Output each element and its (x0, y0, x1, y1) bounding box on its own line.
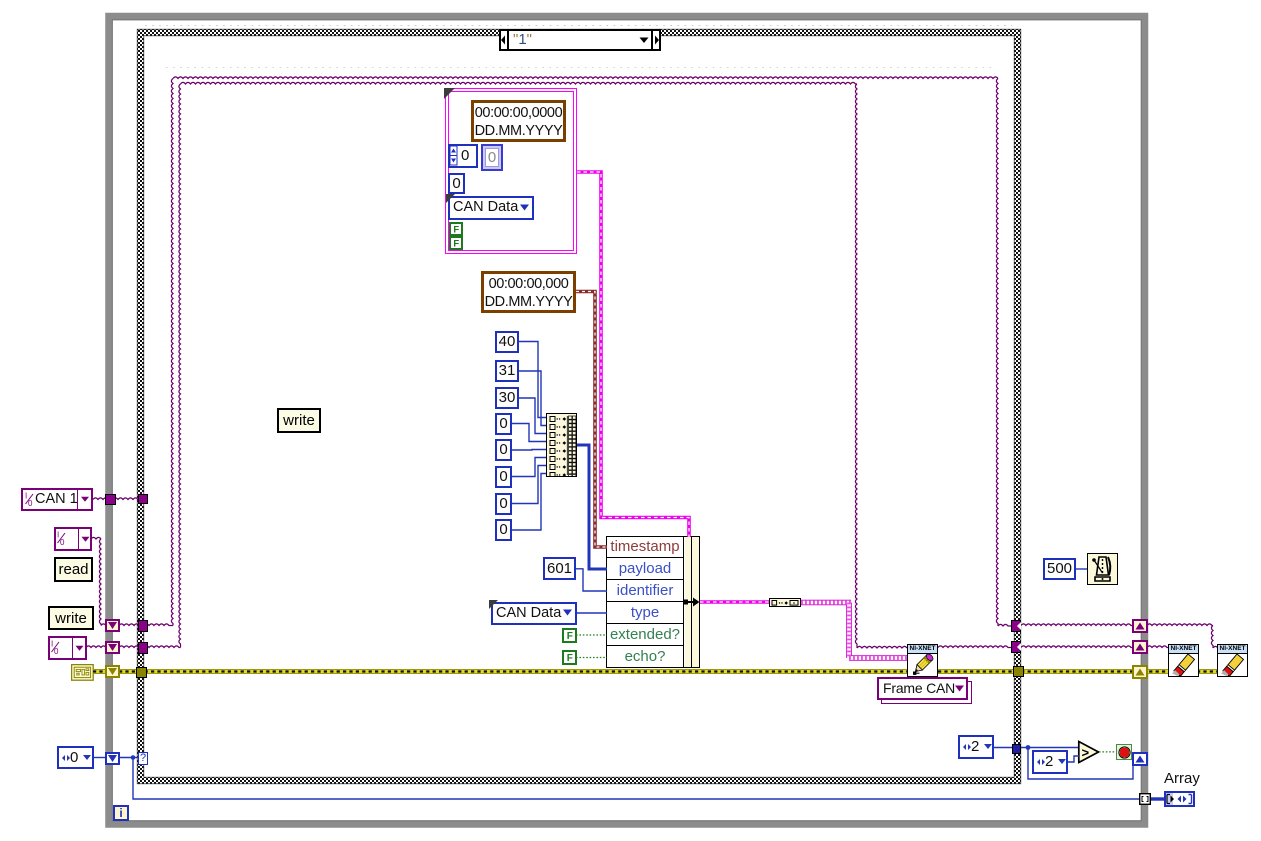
shift register left (read session) (105, 619, 120, 632)
wire 500 to wait ms (1076, 568, 1087, 570)
error cluster constant (71, 664, 94, 681)
shift register right (session A) (1132, 619, 1148, 633)
numeric constant 0 (495, 466, 512, 488)
wire timestamp constant to bundle (dark red) (576, 292, 607, 548)
numeric constant 601 (543, 557, 576, 580)
wire session CAN1 to case tunnel (93, 498, 139, 500)
while loop border (109, 17, 1145, 825)
tunnel error on case border (right) (1013, 666, 1024, 677)
wire session B: write session around top through NI-XNET write (86, 82, 1168, 648)
wire cluster constant to bundle input (magenta dashed) (577, 172, 689, 537)
timestamp constant 1 (471, 100, 566, 142)
tunnel session A on case border (right) (1011, 620, 1021, 632)
wire ring 0 to case selector and indexing tunnel (94, 755, 1140, 799)
svg-text:F: F (453, 239, 459, 250)
I/O name constant (empty, write session) (48, 636, 87, 660)
numeric constant 30 (495, 387, 519, 409)
case structure border (137, 29, 1021, 784)
case selector label "1" (499, 29, 661, 51)
ring constant CAN Data 2 (491, 602, 577, 625)
iteration terminal i (113, 805, 129, 821)
numeric constant 0 (495, 493, 512, 515)
ring constant 0 (case select) (57, 746, 94, 769)
svg-text:I: I (25, 492, 27, 501)
wire array out to Array indicator (1148, 797, 1164, 800)
build array node (8 inputs) (546, 413, 577, 477)
wire 601 to identifier (576, 569, 607, 591)
wire greater? to stop terminal (boolean) (1099, 751, 1116, 753)
faint selection marquee lines (145, 26, 1012, 68)
greater? comparison node (1077, 740, 1102, 765)
ring constant CAN Data (cluster) (448, 196, 534, 220)
tunnel count on case border (right) (1012, 744, 1021, 754)
wire session A: left SR around top to right tunnel (119, 77, 1218, 648)
I/O name constant (empty, read session) (54, 527, 92, 551)
cluster constant frame (445, 88, 577, 254)
numeric constant 0 (495, 519, 512, 541)
wire array of clusters (striped magenta) to XNET write (801, 603, 907, 659)
shift register left (error) (105, 665, 120, 678)
NI-XNET Close node 1 (1168, 644, 1199, 677)
tunnel CAN1 on while border (105, 494, 116, 505)
tunnel error on case border (136, 667, 147, 678)
wires boolean F to bundle (576, 635, 607, 658)
wire error cluster (93, 669, 1218, 674)
free label read (54, 557, 93, 582)
svg-text:I: I (51, 640, 53, 649)
shift register left (count, blue) (105, 752, 120, 765)
Array indicator terminal (1164, 791, 1195, 807)
wire bundle output cluster (magenta dashed) (700, 600, 770, 604)
wire array: build array to bundle payload (577, 445, 607, 569)
case selector terminal ? (138, 752, 148, 765)
ring constant 2 (inside case) (958, 735, 994, 759)
timestamp constant 2 (481, 271, 576, 313)
tunnel session B on case border (right) (1011, 641, 1021, 653)
shift register left (write session) (105, 641, 120, 654)
wires stop condition circuit (993, 745, 1133, 779)
wire CAN Data ring to type (577, 612, 607, 614)
svg-text:F: F (453, 225, 459, 236)
I/O name constant CAN 1 (21, 488, 93, 511)
numeric constant 500 (1043, 558, 1076, 580)
ring constant 2 (outside case) (1032, 750, 1068, 774)
numeric constant 31 (495, 360, 519, 382)
ring constant Frame CAN (881, 681, 972, 704)
stop conditional terminal (1116, 744, 1132, 760)
tunnel write session on case border (138, 642, 148, 654)
numeric 0 (grayed) (481, 144, 503, 171)
svg-text:I: I (57, 531, 59, 540)
wires: numeric constants to build array (512, 342, 546, 531)
boolean constant F 1 (449, 222, 463, 236)
boolean constant F (extended?) (562, 628, 577, 643)
NI-XNET Write node (907, 644, 938, 677)
numeric spinner 0 (448, 144, 478, 168)
shift register right (error) (1132, 665, 1148, 679)
boolean constant F 2 (449, 236, 463, 250)
wait ms node (metronome) (1087, 553, 1118, 585)
boolean constant F (echo?) (562, 650, 577, 665)
bundle by name node (606, 536, 700, 668)
free label write (middle) (277, 408, 321, 433)
build array node (1 input) (769, 598, 801, 607)
numeric constant 0 (cluster) (448, 173, 465, 194)
shift register right (session B) (1132, 640, 1148, 654)
numeric constant 40 (495, 331, 519, 353)
indexing tunnel on while border (1139, 793, 1151, 805)
wire session read init: I/O const to left shift register (91, 537, 106, 625)
numeric constant 0 (495, 413, 512, 435)
numeric constant 0 (495, 439, 512, 461)
tunnel CAN1 on case border (138, 494, 148, 504)
free label write (left) (48, 606, 94, 630)
shift register right (count, blue) (1132, 752, 1148, 766)
label Array (1164, 770, 1200, 788)
tunnel read session on case border (138, 620, 148, 632)
NI-XNET Close node 2 (1217, 644, 1248, 677)
